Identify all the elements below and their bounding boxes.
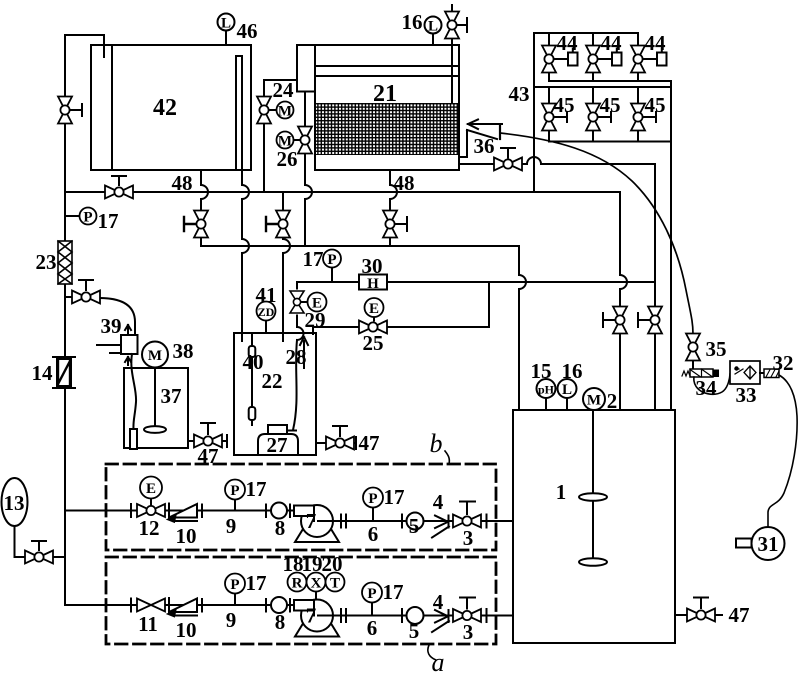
- svg-text:T: T: [330, 576, 340, 592]
- svg-text:45: 45: [554, 93, 575, 117]
- svg-text:4: 4: [433, 490, 444, 514]
- svg-text:E: E: [146, 481, 156, 497]
- svg-text:13: 13: [4, 491, 25, 515]
- svg-text:34: 34: [696, 376, 718, 400]
- svg-text:17: 17: [246, 477, 267, 501]
- svg-text:6: 6: [368, 522, 379, 546]
- svg-text:20: 20: [322, 552, 343, 576]
- svg-text:a: a: [432, 648, 445, 677]
- svg-text:33: 33: [736, 383, 757, 407]
- svg-text:17: 17: [98, 209, 119, 233]
- svg-text:24: 24: [273, 78, 295, 102]
- svg-text:P: P: [230, 577, 239, 593]
- svg-text:M: M: [278, 104, 292, 120]
- svg-text:46: 46: [237, 19, 258, 43]
- svg-text:40: 40: [243, 350, 264, 374]
- svg-text:8: 8: [275, 516, 286, 540]
- svg-text:17: 17: [383, 580, 404, 604]
- svg-text:7: 7: [306, 509, 317, 533]
- svg-text:35: 35: [706, 337, 727, 361]
- svg-text:45: 45: [600, 93, 621, 117]
- svg-text:37: 37: [161, 384, 182, 408]
- svg-text:41: 41: [256, 283, 277, 307]
- svg-text:M: M: [148, 348, 162, 364]
- svg-text:30: 30: [362, 254, 383, 278]
- svg-text:47: 47: [198, 444, 219, 468]
- svg-text:P: P: [367, 586, 376, 602]
- svg-text:29: 29: [305, 308, 326, 332]
- svg-text:14: 14: [32, 361, 54, 385]
- svg-text:b: b: [430, 429, 443, 458]
- svg-text:12: 12: [139, 516, 160, 540]
- svg-text:26: 26: [277, 147, 298, 171]
- svg-text:6: 6: [367, 616, 378, 640]
- svg-text:47: 47: [359, 431, 380, 455]
- svg-text:P: P: [230, 483, 239, 499]
- svg-text:44: 44: [557, 31, 579, 55]
- svg-text:47: 47: [729, 603, 750, 627]
- svg-text:25: 25: [363, 331, 384, 355]
- svg-text:ZD: ZD: [258, 305, 275, 319]
- svg-text:M: M: [587, 393, 601, 409]
- svg-text:36: 36: [474, 134, 495, 158]
- svg-text:L: L: [221, 16, 231, 32]
- svg-text:4: 4: [433, 590, 444, 614]
- svg-text:P: P: [327, 252, 336, 268]
- svg-text:7: 7: [306, 604, 317, 628]
- svg-text:19: 19: [302, 552, 323, 576]
- svg-text:21: 21: [373, 81, 397, 107]
- svg-text:48: 48: [172, 171, 193, 195]
- svg-text:L: L: [428, 19, 438, 35]
- svg-text:15: 15: [531, 359, 552, 383]
- svg-text:P: P: [83, 210, 92, 226]
- svg-text:X: X: [311, 576, 322, 592]
- svg-text:31: 31: [758, 532, 779, 556]
- svg-text:39: 39: [101, 314, 122, 338]
- svg-text:R: R: [292, 576, 303, 592]
- svg-text:H: H: [367, 276, 379, 292]
- svg-text:5: 5: [409, 619, 420, 643]
- svg-text:17: 17: [303, 247, 324, 271]
- svg-text:17: 17: [246, 571, 267, 595]
- svg-text:3: 3: [463, 526, 474, 550]
- svg-text:18: 18: [283, 552, 304, 576]
- svg-text:E: E: [369, 301, 379, 317]
- svg-text:9: 9: [226, 514, 237, 538]
- svg-text:45: 45: [645, 93, 666, 117]
- svg-text:5: 5: [409, 514, 420, 538]
- svg-text:10: 10: [176, 524, 197, 548]
- svg-text:pH: pH: [538, 383, 555, 397]
- svg-text:17: 17: [384, 485, 405, 509]
- svg-text:16: 16: [402, 10, 423, 34]
- svg-text:27: 27: [267, 433, 288, 457]
- svg-text:44: 44: [601, 31, 623, 55]
- svg-text:2: 2: [607, 389, 618, 413]
- svg-text:38: 38: [173, 339, 194, 363]
- svg-text:43: 43: [509, 82, 530, 106]
- svg-text:9: 9: [226, 608, 237, 632]
- svg-text:1: 1: [556, 480, 567, 504]
- svg-text:23: 23: [36, 250, 57, 274]
- svg-text:32: 32: [773, 351, 794, 375]
- svg-text:L: L: [562, 382, 572, 398]
- svg-text:44: 44: [645, 31, 667, 55]
- svg-text:28: 28: [286, 345, 307, 369]
- svg-text:10: 10: [176, 618, 197, 642]
- svg-text:11: 11: [138, 612, 158, 636]
- svg-text:16: 16: [562, 359, 583, 383]
- svg-text:8: 8: [275, 610, 286, 634]
- svg-text:3: 3: [463, 620, 474, 644]
- svg-text:48: 48: [394, 171, 415, 195]
- svg-text:22: 22: [262, 369, 283, 393]
- svg-text:42: 42: [153, 95, 177, 121]
- svg-text:P: P: [368, 491, 377, 507]
